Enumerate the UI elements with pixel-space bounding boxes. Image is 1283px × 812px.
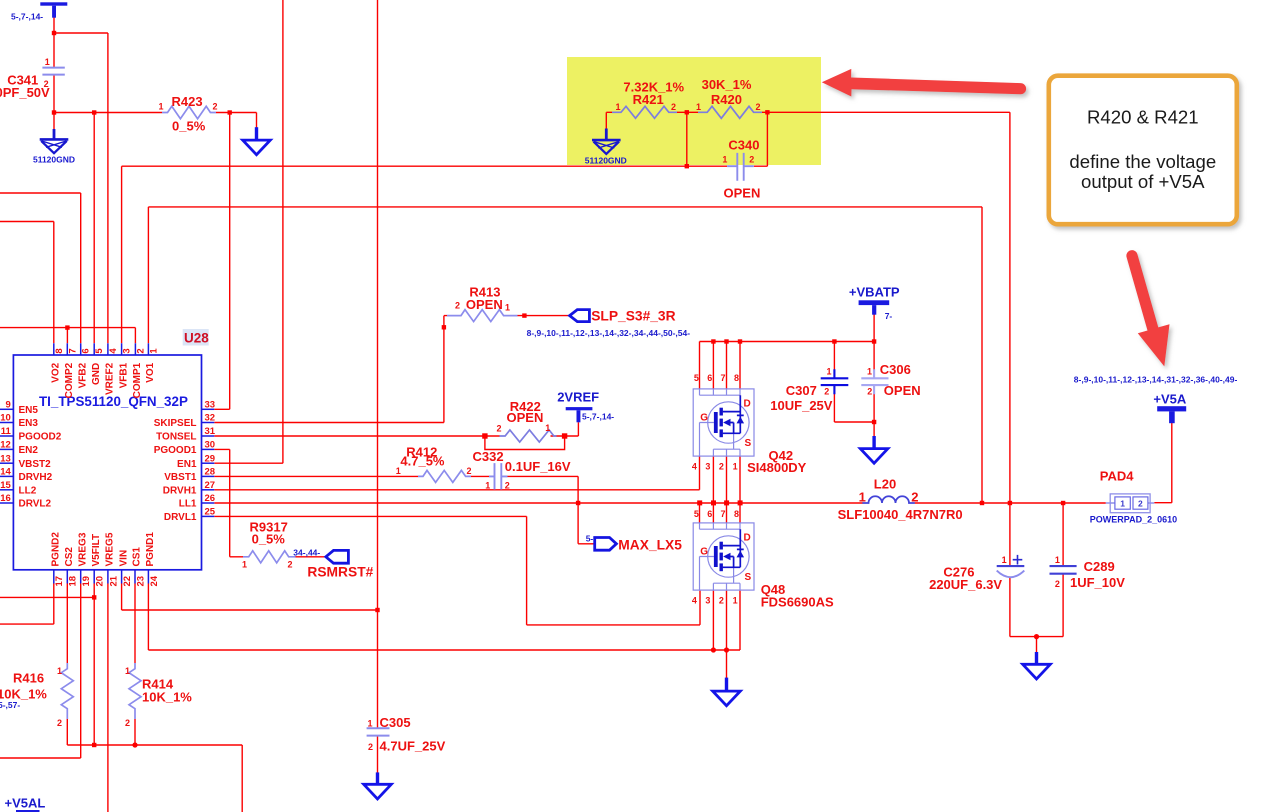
junction node drain bus 7 xyxy=(724,339,728,343)
ground symbol at C306 xyxy=(860,436,888,463)
svg-text:5: 5 xyxy=(694,373,699,383)
svg-text:D: D xyxy=(744,533,751,544)
svg-text:define the voltage: define the voltage xyxy=(1069,151,1216,172)
wire R422 bypass xyxy=(485,436,565,450)
svg-text:2: 2 xyxy=(213,102,218,112)
svg-text:2: 2 xyxy=(719,462,724,472)
svg-text:1: 1 xyxy=(696,102,701,112)
svg-text:R420: R420 xyxy=(711,92,742,107)
svg-text:220UF_6.3V: 220UF_6.3V xyxy=(929,577,1002,592)
svg-text:1: 1 xyxy=(57,666,62,676)
svg-text:18: 18 xyxy=(68,576,79,587)
capacitor C307 xyxy=(821,369,849,394)
junction node R414 bottom xyxy=(132,742,137,747)
svg-text:5-,7-,14-: 5-,7-,14- xyxy=(11,12,43,22)
pin 18 stub xyxy=(66,570,68,584)
svg-text:S: S xyxy=(745,572,752,583)
pin 25 stub xyxy=(202,515,215,517)
svg-text:1: 1 xyxy=(242,560,247,570)
svg-text:2: 2 xyxy=(911,490,918,505)
junction node C306 bottom xyxy=(872,420,876,424)
svg-text:10: 10 xyxy=(0,413,11,424)
svg-text:output of +V5A: output of +V5A xyxy=(1081,171,1205,192)
junction node caps gnd xyxy=(1034,634,1039,639)
svg-text:1: 1 xyxy=(396,466,401,476)
arrow to V5A xyxy=(1126,250,1169,366)
svg-text:1: 1 xyxy=(867,366,872,376)
svg-text:1: 1 xyxy=(367,718,372,728)
svg-text:2: 2 xyxy=(135,348,146,353)
ground 51120GND left xyxy=(40,129,69,153)
junction node COMP pin7 xyxy=(65,325,69,329)
svg-text:2: 2 xyxy=(455,301,460,311)
svg-text:OPEN: OPEN xyxy=(466,297,503,312)
svg-text:26: 26 xyxy=(205,493,216,504)
svg-text:0_5%: 0_5% xyxy=(252,531,286,546)
svg-text:VBST1: VBST1 xyxy=(164,472,197,483)
svg-text:COMP1: COMP1 xyxy=(132,362,143,398)
svg-text:8: 8 xyxy=(734,509,739,519)
wire +V5A stem to PAD4 xyxy=(1154,423,1172,503)
svg-text:10UF_25V: 10UF_25V xyxy=(770,398,832,413)
svg-text:25: 25 xyxy=(205,507,216,518)
svg-text:13: 13 xyxy=(0,453,11,464)
svg-text:C306: C306 xyxy=(880,362,911,377)
wire C341 bottom to GND row xyxy=(53,75,55,130)
transistor Q42 SI4800DY xyxy=(693,389,754,456)
svg-text:2: 2 xyxy=(824,387,829,397)
svg-text:0PF_50V: 0PF_50V xyxy=(0,85,50,100)
svg-text:G: G xyxy=(700,547,708,558)
ground symbol at C276 C289 xyxy=(1023,652,1051,679)
U28 refdes highlight xyxy=(183,329,209,346)
power symbol +VBATP xyxy=(859,300,890,314)
junction node R413 pin2 xyxy=(442,325,446,329)
port MAX_LX5 xyxy=(595,538,617,551)
svg-text:1: 1 xyxy=(148,348,159,354)
svg-text:GND: GND xyxy=(91,363,102,385)
svg-text:12: 12 xyxy=(0,440,11,451)
junction node R420-V5A xyxy=(1008,501,1012,505)
pin 9 stub xyxy=(0,408,13,410)
svg-text:PGND2: PGND2 xyxy=(51,532,62,567)
svg-text:EN2: EN2 xyxy=(19,445,39,456)
svg-text:OPEN: OPEN xyxy=(884,383,921,398)
junction node LL q6 xyxy=(711,500,716,505)
svg-text:G: G xyxy=(700,413,708,424)
capacitor C306 xyxy=(861,369,888,394)
svg-text:1: 1 xyxy=(45,57,50,67)
power symbol 2VREF rail top-left xyxy=(40,2,67,17)
wire VO2 pin8 xyxy=(0,222,54,344)
wire VFB1 net to divider xyxy=(122,112,768,343)
wire VREG5 pin21 xyxy=(107,584,109,812)
svg-text:VREG3: VREG3 xyxy=(77,532,88,566)
svg-text:LL1: LL1 xyxy=(179,499,197,510)
svg-text:R423: R423 xyxy=(172,94,203,109)
wire R422 pin1 to 2VREF xyxy=(551,422,579,436)
junction node C289-V5A xyxy=(1061,501,1065,505)
svg-text:+V5AL: +V5AL xyxy=(5,796,46,811)
svg-text:1: 1 xyxy=(859,490,866,505)
pin 29 stub xyxy=(202,462,215,464)
svg-text:2: 2 xyxy=(288,560,293,570)
svg-text:10K_1%: 10K_1% xyxy=(142,690,192,705)
svg-text:28: 28 xyxy=(205,467,216,478)
junction node drain bus 6 xyxy=(711,339,715,343)
wire Q48 ground stem xyxy=(726,650,728,679)
svg-text:2: 2 xyxy=(671,102,676,112)
wire R423 pin2 to ground xyxy=(216,113,257,129)
capacitor C305 xyxy=(367,728,390,735)
svg-text:DRVH1: DRVH1 xyxy=(163,486,197,497)
svg-text:7: 7 xyxy=(721,373,726,383)
svg-text:LL2: LL2 xyxy=(19,486,37,497)
wire R421 pin1 down to gnd xyxy=(605,112,607,129)
junction node R422 pin1 xyxy=(562,433,567,438)
ground symbol at R423 xyxy=(243,127,271,155)
wire C276 stems xyxy=(1009,503,1011,637)
pin 33 stub xyxy=(202,408,215,410)
pin 2 stub xyxy=(134,343,136,355)
pin 26 stub xyxy=(202,502,215,504)
svg-text:0.1UF_16V: 0.1UF_16V xyxy=(505,459,571,474)
svg-text:5-,57-: 5-,57- xyxy=(0,700,20,710)
wire DRVL1 to Q48 gate xyxy=(214,516,700,625)
pin 13 stub xyxy=(0,462,13,464)
port SLP_S3#_3R xyxy=(570,310,590,322)
svg-text:R416: R416 xyxy=(13,671,44,686)
op-amp-IC U28 TI_TPS51120_QFN_32P body xyxy=(13,355,201,570)
wire R420 pin2 to +V5A riser xyxy=(762,112,1010,503)
svg-text:4: 4 xyxy=(692,462,697,472)
svg-text:20: 20 xyxy=(95,576,106,587)
pin 17 stub xyxy=(53,570,55,584)
pin 3 stub xyxy=(121,343,123,355)
svg-text:SI4800DY: SI4800DY xyxy=(747,460,807,475)
wire PGND1 net xyxy=(148,584,740,651)
svg-text:2: 2 xyxy=(749,155,754,165)
svg-text:3: 3 xyxy=(705,596,710,606)
wire EN1 riser xyxy=(214,0,283,463)
junction node LL q5 xyxy=(697,500,702,505)
pin 5 stub xyxy=(93,343,95,355)
svg-text:PGOOD1: PGOOD1 xyxy=(154,445,197,456)
svg-text:24: 24 xyxy=(149,575,160,586)
svg-text:U28: U28 xyxy=(184,331,209,346)
svg-text:PAD4: PAD4 xyxy=(1100,469,1134,484)
svg-text:8-,9-,10-,11-,12-,13-,14-,31-,: 8-,9-,10-,11-,12-,13-,14-,31-,32-,36-,40… xyxy=(1074,374,1238,384)
junction node C340 pin1 tap xyxy=(685,164,689,168)
svg-text:2: 2 xyxy=(756,102,761,112)
wire pin33 riser xyxy=(214,113,229,410)
svg-text:6: 6 xyxy=(81,348,92,353)
svg-text:5: 5 xyxy=(94,348,105,354)
svg-text:SLF10040_4R7N7R0: SLF10040_4R7N7R0 xyxy=(838,507,963,522)
svg-text:VIN: VIN xyxy=(118,550,129,567)
pin 10 stub xyxy=(0,422,13,424)
svg-text:5: 5 xyxy=(694,509,699,519)
wire Q42 source pins xyxy=(713,456,740,503)
svg-text:1: 1 xyxy=(1002,555,1007,565)
svg-text:34-,44-: 34-,44- xyxy=(293,547,320,557)
wire VIN pin22 xyxy=(122,584,378,611)
svg-text:6: 6 xyxy=(707,373,712,383)
junction node R422 pin2 xyxy=(482,433,487,438)
pin 7 stub xyxy=(66,343,68,355)
svg-text:TI_TPS51120_QFN_32P: TI_TPS51120_QFN_32P xyxy=(39,394,188,409)
svg-text:VO2: VO2 xyxy=(51,362,62,382)
resistor R416 xyxy=(61,663,73,719)
wire Q48 drain pins xyxy=(700,503,741,523)
svg-text:SKIPSEL: SKIPSEL xyxy=(154,418,197,429)
svg-text:0_5%: 0_5% xyxy=(172,119,206,134)
svg-text:51120GND: 51120GND xyxy=(33,155,75,165)
svg-text:PGOOD2: PGOOD2 xyxy=(19,432,62,443)
wire CS2 pin18 to R416 xyxy=(66,584,68,664)
wire DRVH1 to Q42 gate xyxy=(214,456,699,490)
pin 16 stub xyxy=(0,502,13,504)
pin 19 stub xyxy=(80,570,82,584)
resistor R421 xyxy=(612,106,677,118)
svg-text:CS2: CS2 xyxy=(64,547,75,567)
svg-text:EN3: EN3 xyxy=(19,418,39,429)
svg-text:30K_1%: 30K_1% xyxy=(702,77,752,92)
svg-text:D: D xyxy=(744,399,751,410)
capacitor C341 xyxy=(42,68,64,75)
pin 23 stub xyxy=(134,570,136,584)
arrow to highlight box xyxy=(822,69,1026,97)
svg-text:RSMRST#: RSMRST# xyxy=(307,565,373,580)
resistor R412 xyxy=(418,470,471,482)
svg-text:TONSEL: TONSEL xyxy=(156,432,196,443)
svg-text:1: 1 xyxy=(826,366,831,376)
pin 15 stub xyxy=(0,489,13,491)
junction node LL q8 xyxy=(738,500,743,505)
wire R412 pin2 to C332 xyxy=(471,475,489,477)
svg-text:8: 8 xyxy=(734,373,739,383)
junction node R423 pin2 xyxy=(228,110,232,114)
svg-text:+V5A: +V5A xyxy=(1153,392,1186,407)
svg-text:8-,9-,10-,11-,12-,13-,14-,32-,: 8-,9-,10-,11-,12-,13-,14-,32-,34-,44-,50… xyxy=(527,328,691,338)
svg-text:2: 2 xyxy=(1138,498,1143,508)
pin 27 stub xyxy=(202,489,215,491)
svg-text:1UF_10V: 1UF_10V xyxy=(1070,575,1125,590)
svg-text:POWERPAD_2_0610: POWERPAD_2_0610 xyxy=(1090,515,1177,525)
svg-text:C305: C305 xyxy=(380,715,411,730)
svg-text:14: 14 xyxy=(0,467,11,478)
wire V5FILT pin20 xyxy=(0,584,94,746)
svg-text:17: 17 xyxy=(54,576,65,587)
pin 28 stub xyxy=(202,475,215,477)
pin 22 stub xyxy=(121,570,123,584)
resistor R9317 xyxy=(243,551,296,563)
svg-text:31: 31 xyxy=(205,426,216,437)
pin 11 stub xyxy=(0,435,13,437)
svg-text:V5FILT: V5FILT xyxy=(91,534,102,567)
transistor Q48 FDS6690AS xyxy=(693,523,754,590)
svg-text:FDS6690AS: FDS6690AS xyxy=(761,595,834,610)
junction node LL q7 xyxy=(724,500,729,505)
highlight box over R420/R421 xyxy=(567,57,821,165)
svg-text:15: 15 xyxy=(0,480,11,491)
resistor R420 xyxy=(698,106,762,118)
connector PAD4 POWERPAD xyxy=(1106,494,1155,513)
svg-text:2: 2 xyxy=(867,387,872,397)
junction node V5FILT left xyxy=(92,595,96,599)
wire divider mid tap riser xyxy=(686,112,688,166)
wire C332 pin2 to LL node xyxy=(508,476,579,503)
junction node VO1-V5A xyxy=(980,501,984,505)
svg-text:2: 2 xyxy=(368,742,373,752)
wire C307 stems xyxy=(834,342,874,423)
svg-text:2: 2 xyxy=(1055,579,1060,589)
wire VREF2 top rail to pin 4 xyxy=(54,18,108,344)
power symbol +V5A xyxy=(1157,406,1186,423)
svg-text:R421: R421 xyxy=(633,92,664,107)
svg-text:5-,7-,14-: 5-,7-,14- xyxy=(582,412,614,422)
port RSMRST# xyxy=(326,550,349,563)
svg-text:30: 30 xyxy=(205,440,216,451)
svg-text:MAX_LX5: MAX_LX5 xyxy=(618,538,682,553)
wire R9317 pin2 to port xyxy=(296,556,326,558)
wire R421 leads xyxy=(606,111,698,113)
pin 20 stub xyxy=(93,570,95,584)
svg-text:C340: C340 xyxy=(728,138,759,153)
wire C289 stems xyxy=(1062,503,1064,637)
junction node PGND q2 xyxy=(724,647,729,652)
pin 30 stub xyxy=(202,448,215,450)
junction node GND pin5 xyxy=(92,110,96,114)
svg-text:VO1: VO1 xyxy=(145,362,156,382)
svg-text:DRVH2: DRVH2 xyxy=(19,472,53,483)
svg-text:4.7UF_25V: 4.7UF_25V xyxy=(380,738,446,753)
pin 12 stub xyxy=(0,448,13,450)
resistor R423 xyxy=(162,106,216,118)
svg-text:29: 29 xyxy=(205,453,216,464)
junction node C341 bottom xyxy=(52,110,56,114)
svg-text:R420 & R421: R420 & R421 xyxy=(1087,107,1199,128)
wire R416/R414 bottom rail xyxy=(67,719,242,812)
svg-text:S: S xyxy=(745,438,752,449)
pin 4 stub xyxy=(107,343,109,355)
junction node PGND q3 xyxy=(711,647,716,652)
svg-text:VBST2: VBST2 xyxy=(19,459,52,470)
pin 31 stub xyxy=(202,435,215,437)
junction node V5FILT bottom xyxy=(92,743,96,747)
svg-text:2: 2 xyxy=(719,596,724,606)
svg-text:C307: C307 xyxy=(786,383,817,398)
svg-text:11: 11 xyxy=(1,426,12,437)
pin 14 stub xyxy=(0,475,13,477)
svg-text:DRVL2: DRVL2 xyxy=(19,499,52,510)
wire VREG3 pin19 xyxy=(0,584,81,759)
wire COMP1-COMP2 xyxy=(0,328,135,344)
ground 51120GND right xyxy=(592,129,621,154)
svg-text:1: 1 xyxy=(545,423,550,433)
svg-text:OPEN: OPEN xyxy=(724,186,761,201)
junction node VBATP xyxy=(872,339,876,343)
wire SKIPSEL to R413 xyxy=(214,316,447,423)
svg-text:1: 1 xyxy=(485,480,490,490)
svg-text:2: 2 xyxy=(467,466,472,476)
callout box R420 R421 note xyxy=(1049,76,1237,225)
svg-text:8: 8 xyxy=(54,348,65,353)
junction node C332-LL xyxy=(576,501,580,505)
junction node C307 top xyxy=(832,339,836,343)
svg-text:51120GND: 51120GND xyxy=(585,155,627,165)
ground symbol at Q48 xyxy=(713,678,741,706)
svg-text:2: 2 xyxy=(505,480,510,490)
svg-text:2VREF: 2VREF xyxy=(557,390,599,405)
svg-text:C332: C332 xyxy=(473,449,504,464)
svg-text:2: 2 xyxy=(57,718,62,728)
svg-text:C289: C289 xyxy=(1084,559,1115,574)
pin 8 stub xyxy=(53,343,55,355)
svg-text:7: 7 xyxy=(67,348,78,353)
wire LL to MAX_LX5 port xyxy=(578,503,595,544)
pin 1 stub xyxy=(147,343,149,355)
capacitor C289 xyxy=(1050,566,1077,574)
svg-text:EN1: EN1 xyxy=(177,459,197,470)
wire PGOOD1 to R9317 xyxy=(214,449,243,556)
svg-text:1: 1 xyxy=(616,102,621,112)
wire VBATP drain bus xyxy=(700,342,875,389)
svg-text:1: 1 xyxy=(1055,555,1060,565)
svg-text:+VBATP: +VBATP xyxy=(849,285,900,300)
svg-text:1: 1 xyxy=(505,303,510,313)
inductor L20 xyxy=(862,496,914,503)
wire C305 bottom to ground xyxy=(377,736,379,774)
svg-text:VREF2: VREF2 xyxy=(105,362,116,395)
svg-text:9: 9 xyxy=(6,400,11,411)
svg-text:23: 23 xyxy=(135,576,146,587)
pin 24 stub xyxy=(147,570,149,584)
svg-text:22: 22 xyxy=(122,576,133,587)
capacitor C332 xyxy=(489,463,508,489)
resistor R422 xyxy=(500,430,557,442)
capacitor C276 polarized xyxy=(997,555,1025,577)
svg-text:33: 33 xyxy=(205,400,216,411)
svg-text:1: 1 xyxy=(125,666,130,676)
svg-text:L20: L20 xyxy=(874,477,896,492)
svg-text:5-: 5- xyxy=(586,533,594,543)
svg-text:PGND1: PGND1 xyxy=(145,532,156,567)
svg-text:SLP_S3#_3R: SLP_S3#_3R xyxy=(591,309,675,324)
svg-text:4: 4 xyxy=(108,348,119,354)
junction node R420 pin2 xyxy=(765,110,769,114)
wire GND pin5 xyxy=(93,113,95,344)
svg-text:1: 1 xyxy=(1120,498,1125,508)
svg-text:1: 1 xyxy=(733,462,738,472)
wire Q48 source pins to PGND xyxy=(713,591,740,650)
junction node VREF2 top xyxy=(52,31,56,35)
wire VO1 net xyxy=(148,207,982,503)
svg-text:COMP2: COMP2 xyxy=(64,362,75,398)
svg-text:4: 4 xyxy=(692,596,697,606)
wire VIN riser to C305 xyxy=(377,0,379,728)
resistor R414 xyxy=(129,663,141,719)
svg-text:3: 3 xyxy=(705,462,710,472)
wire TONSEL to R422 xyxy=(214,435,499,437)
svg-text:VFB2: VFB2 xyxy=(77,362,88,388)
svg-text:DRVL1: DRVL1 xyxy=(164,512,197,523)
svg-text:VFB1: VFB1 xyxy=(118,362,129,388)
wire output cap ground rail xyxy=(1010,637,1063,654)
svg-text:VREG5: VREG5 xyxy=(105,532,116,566)
wire GND row to R423 pin1 xyxy=(54,112,162,114)
svg-text:1: 1 xyxy=(159,102,164,112)
